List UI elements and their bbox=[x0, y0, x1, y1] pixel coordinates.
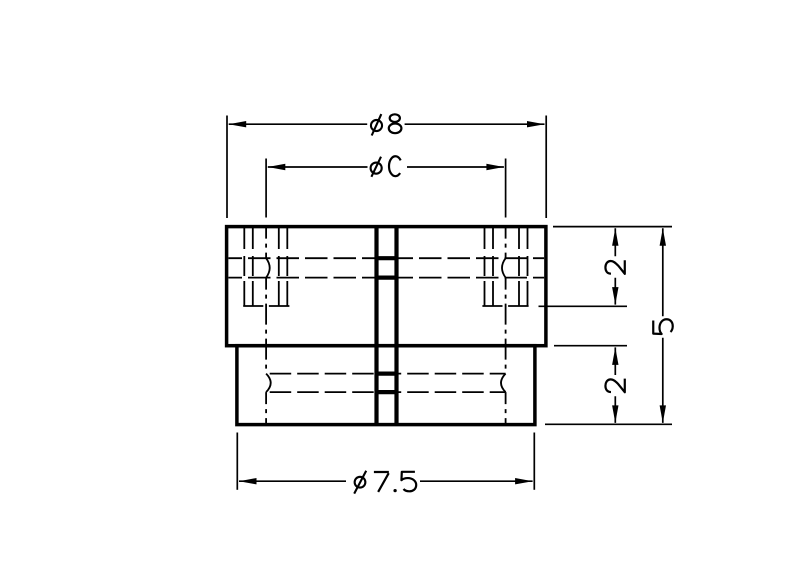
dimension 2 upper arrow top bbox=[612, 228, 618, 246]
upper flange outline (ø8 section) bbox=[227, 227, 546, 346]
ø8 arrow right bbox=[527, 121, 545, 127]
left hole inner hidden line right bbox=[278, 228, 280, 306]
cross-hole visible bar lower 1 bbox=[375, 372, 399, 376]
dimension 2 lower line bbox=[614, 347, 616, 423]
left hole intersection arc lower bbox=[266, 374, 271, 393]
center hole right edge bbox=[394, 227, 398, 425]
cross-hole visible bar upper 1 bbox=[375, 256, 399, 260]
right hole intersection arc upper bbox=[502, 258, 506, 277]
øC extension line left bbox=[265, 159, 267, 218]
dimension 2 lower text bbox=[605, 379, 624, 393]
øC text letter C bbox=[389, 156, 401, 176]
lower body outline (ø7.5 section) bbox=[237, 346, 535, 425]
center hole left edge bbox=[374, 227, 378, 425]
right hole centerline bbox=[505, 227, 507, 425]
left hole intersection arc upper bbox=[266, 258, 270, 277]
lower cross-hole hidden line top bbox=[266, 373, 506, 375]
step extension line bbox=[554, 345, 627, 347]
ø8 arrow left bbox=[229, 121, 247, 127]
left hole centerline bbox=[265, 227, 267, 425]
øC arrow left bbox=[268, 164, 286, 170]
right hole outer hidden line left bbox=[484, 228, 486, 306]
dimension 2 upper text bbox=[605, 260, 624, 274]
ø8 extension line right bbox=[545, 116, 547, 219]
right top extension line bbox=[553, 226, 672, 228]
ø7.5 extension line right bbox=[533, 433, 535, 490]
upper cross-hole hidden line top bbox=[228, 257, 544, 259]
ø7.5 arrow right bbox=[515, 478, 533, 484]
right hole inner hidden line left bbox=[492, 228, 494, 306]
ø7.5 extension line left bbox=[236, 433, 238, 490]
bottom extension line bbox=[545, 423, 672, 425]
ø8 text digit 8 bbox=[389, 114, 402, 133]
lower cross-hole hidden line bottom bbox=[266, 391, 506, 393]
ø8 dimension line bbox=[229, 123, 545, 125]
ø8 diameter symbol bbox=[371, 114, 382, 135]
upper cross-hole hidden line bottom bbox=[228, 277, 544, 279]
left hole outer hidden line right bbox=[286, 228, 288, 306]
right hole intersection arc lower bbox=[501, 374, 506, 393]
øC diameter symbol bbox=[371, 157, 382, 177]
øC dimension line bbox=[268, 166, 504, 168]
ø7.5 text decimal point bbox=[393, 489, 396, 492]
left hole outer hidden line left bbox=[243, 228, 245, 306]
dimension 2 lower arrow top bbox=[612, 347, 618, 365]
cross-hole visible bar lower 2 bbox=[375, 390, 399, 394]
right hole bottom line bbox=[482, 305, 528, 307]
øC arrow right bbox=[486, 164, 504, 170]
ø7.5 text digit 7 bbox=[374, 472, 389, 492]
dimension 2 lower arrow bottom bbox=[612, 405, 618, 423]
right hole outer hidden line right bbox=[527, 228, 529, 306]
dimension 5 arrow bottom bbox=[660, 405, 666, 423]
dimension 2 upper arrow bottom bbox=[612, 287, 618, 305]
hole depth extension line bbox=[539, 305, 628, 307]
dimension 5 arrow top bbox=[660, 228, 666, 246]
ø8 extension line left bbox=[226, 116, 228, 219]
dimension 5 text bbox=[653, 319, 673, 334]
dimension 2 upper line bbox=[614, 228, 616, 304]
ø7.5 arrow left bbox=[239, 478, 257, 484]
cross-hole visible bar upper 2 bbox=[375, 276, 399, 280]
right hole inner hidden line right bbox=[518, 228, 520, 306]
left hole inner hidden line left bbox=[252, 228, 254, 306]
ø7.5 dimension line bbox=[239, 480, 533, 482]
ø7.5 text digit 5 bbox=[401, 472, 416, 492]
dimension 5 line bbox=[662, 228, 664, 423]
øC extension line right bbox=[505, 159, 507, 218]
left hole bottom line bbox=[243, 305, 289, 307]
ø7.5 diameter symbol bbox=[354, 471, 366, 494]
